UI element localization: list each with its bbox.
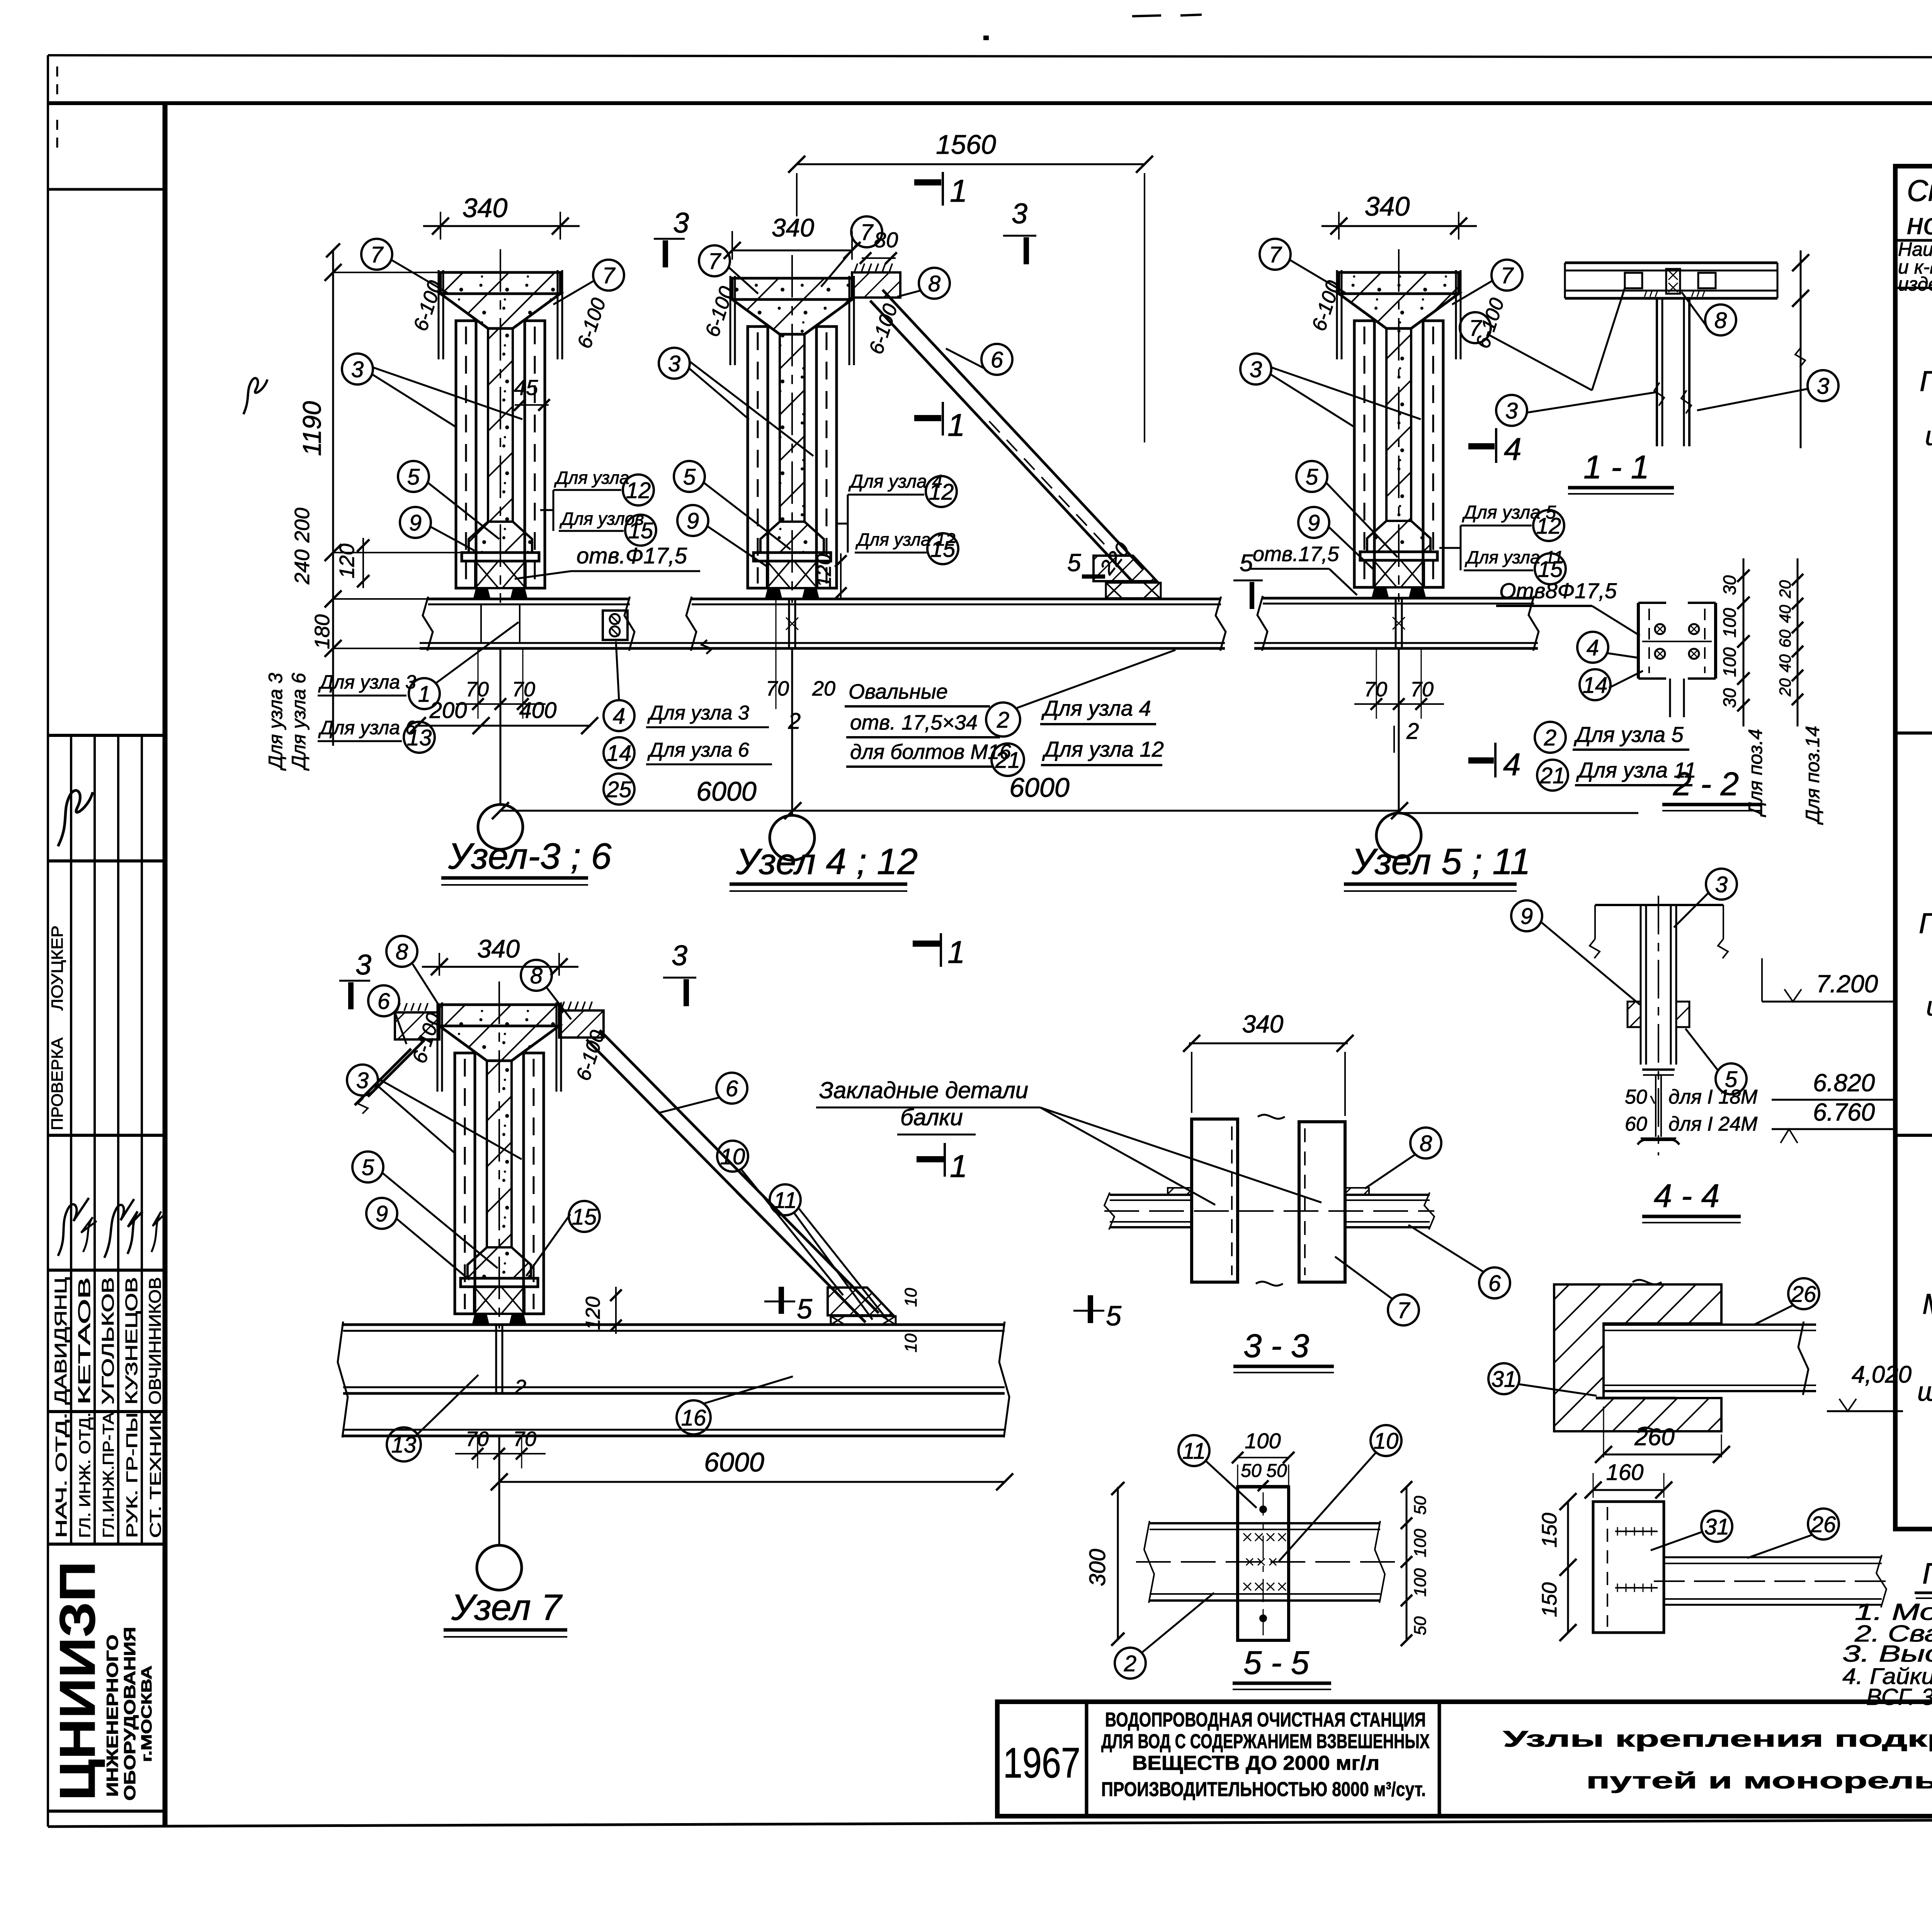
svg-text:Узлы крепления подкранов: Узлы крепления подкрановых [1503, 1726, 1932, 1752]
svg-text:ИНЖЕНЕРНОГО: ИНЖЕНЕРНОГО [103, 1635, 121, 1797]
callout 8 node4 [919, 268, 950, 299]
svg-text:ПП-1: ПП-1 [1919, 907, 1932, 939]
svg-text:26: 26 [1791, 1282, 1816, 1307]
callout 3 node5 [1240, 354, 1271, 384]
svg-text:но изделие.: но изделие. [1907, 207, 1932, 241]
svg-text:ДЛЯ ВОД С СОДЕРЖАНИЕМ ВЗВЕ: ДЛЯ ВОД С СОДЕРЖАНИЕМ ВЗВЕШЕННЫХ [1101, 1730, 1430, 1753]
svg-text:7: 7 [1269, 242, 1282, 267]
svg-text:10: 10 [901, 1334, 920, 1352]
callout 7 right node3 [593, 260, 624, 291]
node4 diagonal brace [870, 301, 1131, 580]
svg-text:3: 3 [351, 357, 364, 382]
section mark 4 lower node5 [1468, 757, 1494, 764]
svg-text:6000: 6000 [696, 776, 757, 806]
svg-text:2: 2 [1544, 725, 1556, 750]
callout 6 node7 left [368, 985, 399, 1016]
svg-text:ГЛ. ИНЖ. ОТД.: ГЛ. ИНЖ. ОТД. [77, 1412, 94, 1538]
svg-text:70: 70 [512, 678, 535, 701]
column left side plate [455, 1053, 475, 1314]
svg-text:шт.1: шт.1 [1917, 1376, 1932, 1407]
stamp column vertical dividers [70, 735, 72, 1544]
column anchor pads [474, 589, 490, 598]
beam break marks [686, 597, 696, 651]
svg-text:100: 100 [1719, 647, 1740, 677]
svg-text:100: 100 [1411, 1568, 1430, 1597]
callout 3 node4 [659, 348, 690, 379]
svg-text:340: 340 [1365, 191, 1410, 221]
svg-text:9: 9 [376, 1201, 388, 1226]
svg-text:2: 2 [788, 709, 801, 734]
callout 5 section 4-4 [1716, 1063, 1747, 1094]
column left side plate [456, 321, 476, 588]
svg-text:5: 5 [362, 1155, 374, 1180]
svg-text:31: 31 [1492, 1367, 1517, 1392]
svg-text:издел.: издел. [1898, 273, 1932, 295]
svg-text:Для узла 6: Для узла 6 [288, 673, 310, 771]
callout 26 channel [1808, 1509, 1839, 1539]
callout 8 section 1-1 [1705, 304, 1736, 335]
dimension 6000 node7 [499, 1481, 1005, 1483]
column cap (hatched) [1339, 272, 1459, 294]
svg-text:1190: 1190 [298, 401, 326, 456]
svg-text:21: 21 [995, 748, 1020, 773]
svg-text:8: 8 [928, 271, 940, 296]
section 4-4 centerline [1658, 896, 1659, 1155]
runway beam top flange [428, 598, 630, 600]
svg-text:2: 2 [997, 708, 1009, 733]
svg-text:3: 3 [672, 939, 687, 971]
svg-text:12: 12 [1536, 514, 1561, 539]
svg-text:1 - 1: 1 - 1 [1583, 449, 1649, 486]
column base plate [1360, 552, 1437, 560]
svg-text:7: 7 [1397, 1298, 1411, 1323]
callout 7 right node5 [1492, 260, 1522, 291]
column web (hatched) [1386, 328, 1411, 521]
node7 beam splice [495, 1325, 497, 1393]
callout 6 section 3-3 [1479, 1267, 1510, 1298]
callout 25 node3 [604, 774, 634, 805]
dimension 150 150 channel [1567, 1502, 1569, 1633]
svg-text:40: 40 [1776, 654, 1794, 672]
svg-text:14: 14 [1583, 673, 1608, 698]
section mark 5 node7 left [764, 1301, 795, 1303]
callout 10 section 5-5 [1371, 1425, 1401, 1456]
svg-text:для I 18М: для I 18М [1668, 1086, 1758, 1108]
node4 grid axis and circle [791, 648, 793, 815]
callout 6 node7 right [716, 1073, 747, 1104]
channel detail beam lines [1664, 1556, 1882, 1558]
column left side plate [1354, 321, 1374, 587]
node4 brace bottom gusset (hatched) [1094, 556, 1157, 581]
svg-text:5: 5 [1106, 1301, 1122, 1332]
svg-text:6: 6 [991, 347, 1003, 373]
svg-text:15: 15 [628, 518, 653, 543]
column grout pad with cross marks [474, 1287, 524, 1314]
svg-text:1560: 1560 [936, 129, 996, 160]
callout 14 section 2-2 [1580, 669, 1611, 700]
column anchor pads [766, 589, 781, 598]
column right side plate [525, 321, 545, 588]
svg-text:12: 12 [929, 480, 954, 505]
section 5-5 dim 300 [1117, 1487, 1119, 1640]
callout 7 left node3 [361, 239, 392, 270]
svg-text:Для узла 6: Для узла 6 [318, 717, 416, 738]
svg-text:8: 8 [1714, 308, 1727, 333]
dimension 260 wall [1604, 1454, 1721, 1456]
svg-text:путей и монорельсов.: путей и монорельсов. [1586, 1768, 1932, 1793]
section 5-5 dim 100 [1238, 1457, 1289, 1458]
svg-text:Для узла 3: Для узла 3 [318, 671, 416, 693]
callout 8 section 3-3 [1410, 1128, 1441, 1158]
section 5-5 vertical plate [1238, 1487, 1289, 1640]
section 1-1 bolt detail [1666, 269, 1680, 294]
runway beam bottom flange [1254, 642, 1538, 644]
svg-text:160: 160 [1606, 1460, 1644, 1485]
column centerline [498, 981, 500, 1328]
beam bearing plate [1596, 1397, 1675, 1400]
svg-text:340: 340 [477, 934, 520, 963]
callout 7 left node5 [1260, 239, 1291, 270]
svg-text:7: 7 [1469, 316, 1483, 341]
callout 6 node4 [981, 344, 1012, 375]
svg-text:11: 11 [1182, 1439, 1206, 1464]
callout 31 wall [1488, 1363, 1519, 1394]
section mark 1 node7 mid [944, 1143, 946, 1177]
section 3-3 dimension 340 [1189, 1043, 1348, 1044]
svg-text:3: 3 [1505, 398, 1518, 424]
column cap (hatched) [732, 278, 852, 299]
column centerline [1398, 249, 1400, 602]
svg-text:5: 5 [1240, 550, 1253, 577]
svg-text:ЦНИИЗП: ЦНИИЗП [49, 1561, 105, 1801]
svg-text:СТ. ТЕХНИК: СТ. ТЕХНИК [147, 1412, 164, 1538]
column foot (hatched) [1367, 521, 1430, 552]
svg-text:11: 11 [774, 1188, 797, 1213]
svg-text:ДАВИДЯНЦ: ДАВИДЯНЦ [51, 1277, 70, 1405]
svg-text:100: 100 [1245, 1429, 1281, 1453]
svg-text:200: 200 [291, 508, 314, 543]
column upper edge strips [437, 1002, 439, 1092]
section 3-3 right plate [1299, 1122, 1345, 1282]
column foot (hatched) [468, 1247, 531, 1278]
svg-text:340: 340 [1242, 1010, 1284, 1038]
svg-text:120: 120 [813, 554, 835, 587]
svg-text:2: 2 [1406, 719, 1419, 744]
svg-text:7: 7 [861, 220, 874, 245]
beam break marks [1257, 596, 1267, 651]
svg-text:4: 4 [1503, 747, 1521, 782]
svg-text:1: 1 [418, 682, 430, 707]
svg-text:240: 240 [291, 549, 314, 585]
svg-text:31: 31 [1704, 1514, 1730, 1539]
section mark 1 node7 top [940, 933, 942, 967]
svg-text:ПП-1: ПП-1 [1920, 365, 1932, 397]
svg-text:2: 2 [514, 1376, 526, 1399]
svg-text:УГОЛЬКОВ: УГОЛЬКОВ [99, 1277, 117, 1405]
stray pen mark [243, 378, 267, 414]
beam break marks [423, 597, 433, 651]
callout 9 node4 [677, 505, 708, 536]
node3 beam bottom extension [420, 642, 707, 644]
section 1-1 central hanger [1656, 298, 1658, 446]
callout 5 node7 [352, 1152, 383, 1182]
svg-text:НАЧ. ОТД.: НАЧ. ОТД. [53, 1412, 70, 1538]
column upper edge strips [1336, 270, 1338, 359]
svg-text:КУЗНЕЦОВ: КУЗНЕЦОВ [122, 1277, 141, 1405]
svg-text:340: 340 [463, 193, 508, 223]
svg-text:2 - 2: 2 - 2 [1673, 766, 1739, 803]
svg-text:7: 7 [708, 249, 722, 274]
svg-text:7.200: 7.200 [1816, 970, 1878, 998]
svg-text:Для узла 12: Для узла 12 [1042, 737, 1164, 761]
beam splice at column axis [788, 599, 790, 648]
svg-text:150: 150 [1538, 1513, 1561, 1548]
callout 4 node3 and label [604, 700, 634, 731]
node7 gusset pad [831, 1316, 896, 1325]
svg-text:9: 9 [687, 509, 699, 534]
inner frame top line [48, 101, 1932, 105]
svg-text:ЛОУЦКЕР: ЛОУЦКЕР [48, 925, 66, 1010]
svg-text:1: 1 [950, 173, 968, 209]
svg-text:шт. 1: шт. 1 [1925, 421, 1932, 451]
svg-text:50: 50 [1266, 1461, 1287, 1481]
section 4-4 monorail I-beam [1642, 1068, 1675, 1071]
column grout pad with cross marks [767, 561, 817, 588]
svg-text:Для узла 4: Для узла 4 [1041, 696, 1151, 720]
runway beam bottom flange [420, 642, 634, 644]
svg-text:7: 7 [1501, 263, 1514, 288]
section 3-3 left plate [1192, 1119, 1238, 1282]
svg-text:60: 60 [1776, 629, 1794, 648]
node7 long diagonal brace [587, 1039, 866, 1322]
svg-text:50: 50 [1411, 1496, 1430, 1515]
svg-text:Узел 5 ; 11: Узел 5 ; 11 [1351, 841, 1531, 882]
svg-text:12: 12 [626, 478, 651, 503]
svg-text:120: 120 [335, 544, 359, 578]
svg-text:9: 9 [409, 510, 422, 536]
svg-text:3. Высота сварных швов h=6мм.: 3. Высота сварных швов h=6мм. [1842, 1641, 1932, 1667]
column upper edge strips [730, 276, 731, 365]
callout 11 node7 [770, 1184, 801, 1215]
section 2-2 dim chain 1 [1743, 558, 1745, 726]
callout 9 node3 [400, 507, 431, 538]
svg-text:балки: балки [900, 1104, 963, 1130]
column right side plate [816, 327, 837, 588]
callout 11 section 5-5 [1179, 1435, 1209, 1466]
svg-text:3: 3 [1012, 197, 1027, 230]
callout 14 node3 and label [604, 737, 634, 768]
svg-text:20: 20 [1776, 678, 1794, 697]
runway beam top flange [1263, 597, 1534, 600]
svg-text:Отв8Ф17,5: Отв8Ф17,5 [1499, 578, 1617, 603]
svg-text:340: 340 [772, 213, 814, 242]
stamp signatures band 2 [58, 1198, 89, 1256]
callout 15 node7 [569, 1201, 600, 1232]
beam splice at column axis [1395, 598, 1397, 648]
column anchor pads [1372, 588, 1388, 597]
node4 top right bracket (hatched) [852, 272, 900, 298]
svg-text:13: 13 [407, 725, 432, 750]
drawing frame left edge / stamp column right edge [163, 103, 168, 1827]
column base plate [753, 553, 831, 561]
dimension 1560 node4 [797, 163, 1145, 165]
svg-text:Для узла: Для узла [554, 468, 629, 488]
top margin dash artifacts [1132, 15, 1161, 16]
channel weld tick rows [1617, 1527, 1618, 1536]
channel embed plate [1593, 1502, 1664, 1633]
svg-text:1: 1 [950, 1149, 968, 1184]
callout 21 node4 [992, 743, 1024, 776]
svg-text:30: 30 [1719, 688, 1740, 708]
stamp column row lines [48, 188, 165, 191]
column foot (hatched) [760, 522, 824, 553]
node7 runway beam deep [343, 1323, 1005, 1326]
callout 3 section 1-1 [1496, 395, 1527, 426]
column centerline [791, 255, 793, 603]
svg-text:Для поз.14: Для поз.14 [1802, 726, 1823, 825]
node7 grid axis and circle [498, 1436, 500, 1545]
callout 9 section 4-4 [1511, 900, 1542, 931]
dimension 340 node7 [439, 953, 440, 976]
stamp top box dashes [56, 66, 58, 97]
axis line continuation right of node5 [1400, 812, 1638, 814]
section 4-4 top beam line [1595, 904, 1723, 906]
svg-text:40: 40 [1776, 605, 1794, 623]
svg-text:ГЛ.ИНЖ.ПР-ТА: ГЛ.ИНЖ.ПР-ТА [100, 1412, 117, 1538]
svg-text:3 - 3: 3 - 3 [1243, 1328, 1309, 1364]
svg-text:ОБОРУДОВАНИЯ: ОБОРУДОВАНИЯ [121, 1627, 139, 1801]
node7 brace gusset (hatched) [828, 1288, 893, 1315]
callout 2 node5 and label [1535, 722, 1566, 753]
section 4-4 brackets [1628, 1002, 1641, 1027]
svg-text:Для узла 3: Для узла 3 [647, 702, 749, 724]
node7 left bracket (hatched) [395, 1012, 439, 1039]
column cap (hatched) [440, 272, 560, 294]
section mark 5 node7 right [1073, 1310, 1104, 1312]
svg-text:26: 26 [1811, 1512, 1836, 1537]
spec table outer frame [1895, 166, 1932, 1529]
svg-text:5: 5 [1067, 549, 1081, 577]
svg-text:Узел 7: Узел 7 [451, 1587, 563, 1628]
svg-text:8: 8 [396, 939, 408, 964]
svg-text:25: 25 [606, 777, 632, 802]
column grout pad with cross marks [475, 561, 526, 588]
column foot (hatched) [469, 522, 532, 553]
svg-text:Примечания :: Примечания : [1922, 1557, 1932, 1590]
callout 9 node5 [1298, 507, 1329, 538]
callout 5 node4 [674, 461, 705, 492]
svg-text:Для узла 3: Для узла 3 [265, 673, 286, 771]
svg-text:400: 400 [519, 698, 557, 723]
svg-text:3: 3 [1817, 374, 1829, 399]
svg-text:Для узла 5: Для узла 5 [1573, 722, 1684, 747]
stamp signatures band 1 [58, 791, 93, 846]
svg-text:3: 3 [1715, 872, 1728, 897]
svg-text:21: 21 [1540, 763, 1565, 788]
section 3-3 left beam stub [1110, 1194, 1192, 1196]
svg-text:1: 1 [947, 408, 965, 443]
sheet outer border [48, 55, 1932, 58]
dimension 340 node3 [440, 212, 441, 240]
svg-text:6: 6 [726, 1076, 738, 1101]
callout 10 node7 [717, 1141, 748, 1172]
svg-text:2: 2 [1124, 1651, 1136, 1676]
svg-text:50: 50 [1411, 1616, 1430, 1635]
svg-text:М-1: М-1 [1922, 1288, 1932, 1320]
svg-text:РУК. ГР-ПЫ: РУК. ГР-ПЫ [124, 1412, 141, 1538]
svg-text:4: 4 [1587, 635, 1599, 660]
svg-text:отв. 17,5×34: отв. 17,5×34 [850, 711, 978, 734]
svg-text:10: 10 [720, 1144, 745, 1169]
svg-text:6: 6 [378, 989, 390, 1014]
column upper edge strips [438, 270, 440, 359]
section 3-3 right beam stub [1345, 1194, 1430, 1196]
svg-text:200: 200 [429, 698, 467, 723]
svg-text:10: 10 [901, 1288, 920, 1307]
runway beam bottom flange [683, 642, 1225, 644]
svg-text:6000: 6000 [704, 1447, 764, 1477]
svg-text:120: 120 [582, 1296, 604, 1330]
svg-text:7: 7 [371, 242, 384, 267]
svg-text:6000: 6000 [1009, 772, 1070, 803]
section mark 4 upper node5 [1468, 443, 1495, 449]
svg-text:16: 16 [681, 1405, 706, 1431]
svg-text:ПРОВЕРКА: ПРОВЕРКА [48, 1038, 66, 1130]
callout 3 node3 [342, 354, 373, 384]
column base plate [462, 553, 539, 561]
svg-text:5: 5 [407, 464, 420, 490]
spec table group separator 2 [1895, 1134, 1932, 1137]
svg-text:ВЕЩЕСТВ ДО 2000 мг/л: ВЕЩЕСТВ ДО 2000 мг/л [1132, 1752, 1379, 1774]
svg-text:100: 100 [1719, 608, 1740, 638]
callout 7 section 1-1 [1460, 312, 1491, 343]
svg-text:70: 70 [766, 677, 789, 700]
svg-text:Узел-3 ; 6: Узел-3 ; 6 [448, 836, 612, 877]
svg-text:9: 9 [1520, 904, 1533, 929]
svg-text:ОВЧИННИКОВ: ОВЧИННИКОВ [146, 1277, 165, 1405]
svg-text:180: 180 [311, 614, 334, 649]
section 2-2 bolts [1655, 624, 1665, 634]
section 3-3 centerline [1104, 1210, 1434, 1212]
svg-text:260: 260 [1634, 1424, 1674, 1451]
column left side plate [748, 327, 768, 588]
section mark 1 mid node4 [942, 402, 944, 435]
svg-text:60: 60 [1625, 1113, 1647, 1135]
svg-text:8: 8 [1420, 1131, 1432, 1156]
callout 3 node7 [347, 1065, 378, 1095]
section mark 5 node4 [1082, 575, 1105, 579]
svg-text:15: 15 [572, 1204, 597, 1230]
column centerline [500, 249, 501, 603]
dimension 6000 node4-node5 [793, 810, 1400, 812]
column web (hatched) [487, 1061, 512, 1247]
callout 5 node3 [398, 461, 429, 492]
section 3-3 break squiggles [1258, 1115, 1285, 1119]
runway beam top flange [692, 598, 1221, 600]
column right side plate [1423, 321, 1443, 587]
callout 31 channel [1701, 1511, 1732, 1542]
node3 beam stiffener lines [480, 604, 482, 643]
callout 26 wall [1788, 1278, 1819, 1309]
column web (hatched) [780, 334, 804, 522]
callout 5 node5 [1296, 461, 1327, 492]
section 5-5 dim 50 50 [1238, 1485, 1289, 1487]
svg-text:Для узла 6: Для узла 6 [647, 739, 749, 761]
section 5-5 right dim chain [1406, 1487, 1408, 1640]
svg-text:5: 5 [1306, 464, 1318, 490]
section 1-1 beam plan [1565, 262, 1777, 264]
svg-text:ПРОИЗВОДИТЕЛЬНОСТЬЮ 8000 м³/с: ПРОИЗВОДИТЕЛЬНОСТЬЮ 8000 м³/сут. [1101, 1778, 1426, 1801]
